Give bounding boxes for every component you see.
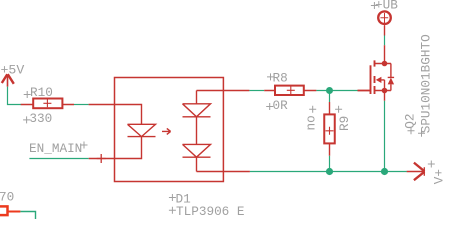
wire R10 to D1 anode bbox=[74, 104, 89, 106]
svg-text:0R: 0R bbox=[273, 98, 289, 113]
optocoupler D1 bbox=[89, 78, 250, 182]
label Q2 bbox=[402, 114, 417, 135]
supply +UB bbox=[371, 0, 398, 36]
junction rail source bbox=[381, 168, 388, 175]
svg-text:SPU10N01BGHTO: SPU10N01BGHTO bbox=[419, 34, 434, 133]
net EN_MAIN bbox=[29, 141, 89, 159]
svg-text:EN_MAIN: EN_MAIN bbox=[29, 141, 82, 156]
svg-text:Q2: Q2 bbox=[402, 114, 417, 129]
bottom rail wire bbox=[250, 171, 407, 173]
wire +UB to drain bbox=[384, 36, 386, 46]
supply V+ bbox=[407, 161, 447, 185]
label D1 bbox=[169, 192, 191, 207]
supply +5V bbox=[1, 62, 25, 86]
svg-text:V+: V+ bbox=[431, 169, 446, 184]
svg-text:R10: R10 bbox=[30, 85, 53, 100]
svg-text:TLP3906 E: TLP3906 E bbox=[176, 204, 245, 219]
wire R9 to rail bbox=[329, 156, 331, 172]
resistor R9 bbox=[304, 102, 353, 156]
wire D1 to R8 bbox=[249, 90, 264, 92]
svg-text:no: no bbox=[304, 115, 319, 130]
junction R9 top bbox=[326, 87, 333, 94]
resistor R10 bbox=[21, 85, 74, 126]
label SPU10N01BGHTO bbox=[418, 34, 434, 136]
svg-text:330: 330 bbox=[29, 111, 52, 126]
wire junction to R9 bbox=[329, 91, 331, 103]
wire source to rail bbox=[384, 101, 386, 172]
svg-text:R8: R8 bbox=[273, 71, 288, 86]
resistor bottom-left (cut) bbox=[0, 190, 20, 216]
transistor Q2 bbox=[358, 45, 395, 101]
wire +5V to R10 bbox=[8, 87, 22, 105]
label TLP3906 E bbox=[169, 204, 245, 219]
wire bottom-left down bbox=[20, 212, 35, 220]
resistor R8 bbox=[264, 71, 316, 113]
junction rail R9 bbox=[326, 168, 333, 175]
svg-text:+5V: +5V bbox=[1, 62, 25, 77]
svg-text:70: 70 bbox=[0, 190, 14, 205]
svg-text:R9: R9 bbox=[337, 116, 352, 131]
wire R8 to gate bbox=[316, 90, 357, 92]
